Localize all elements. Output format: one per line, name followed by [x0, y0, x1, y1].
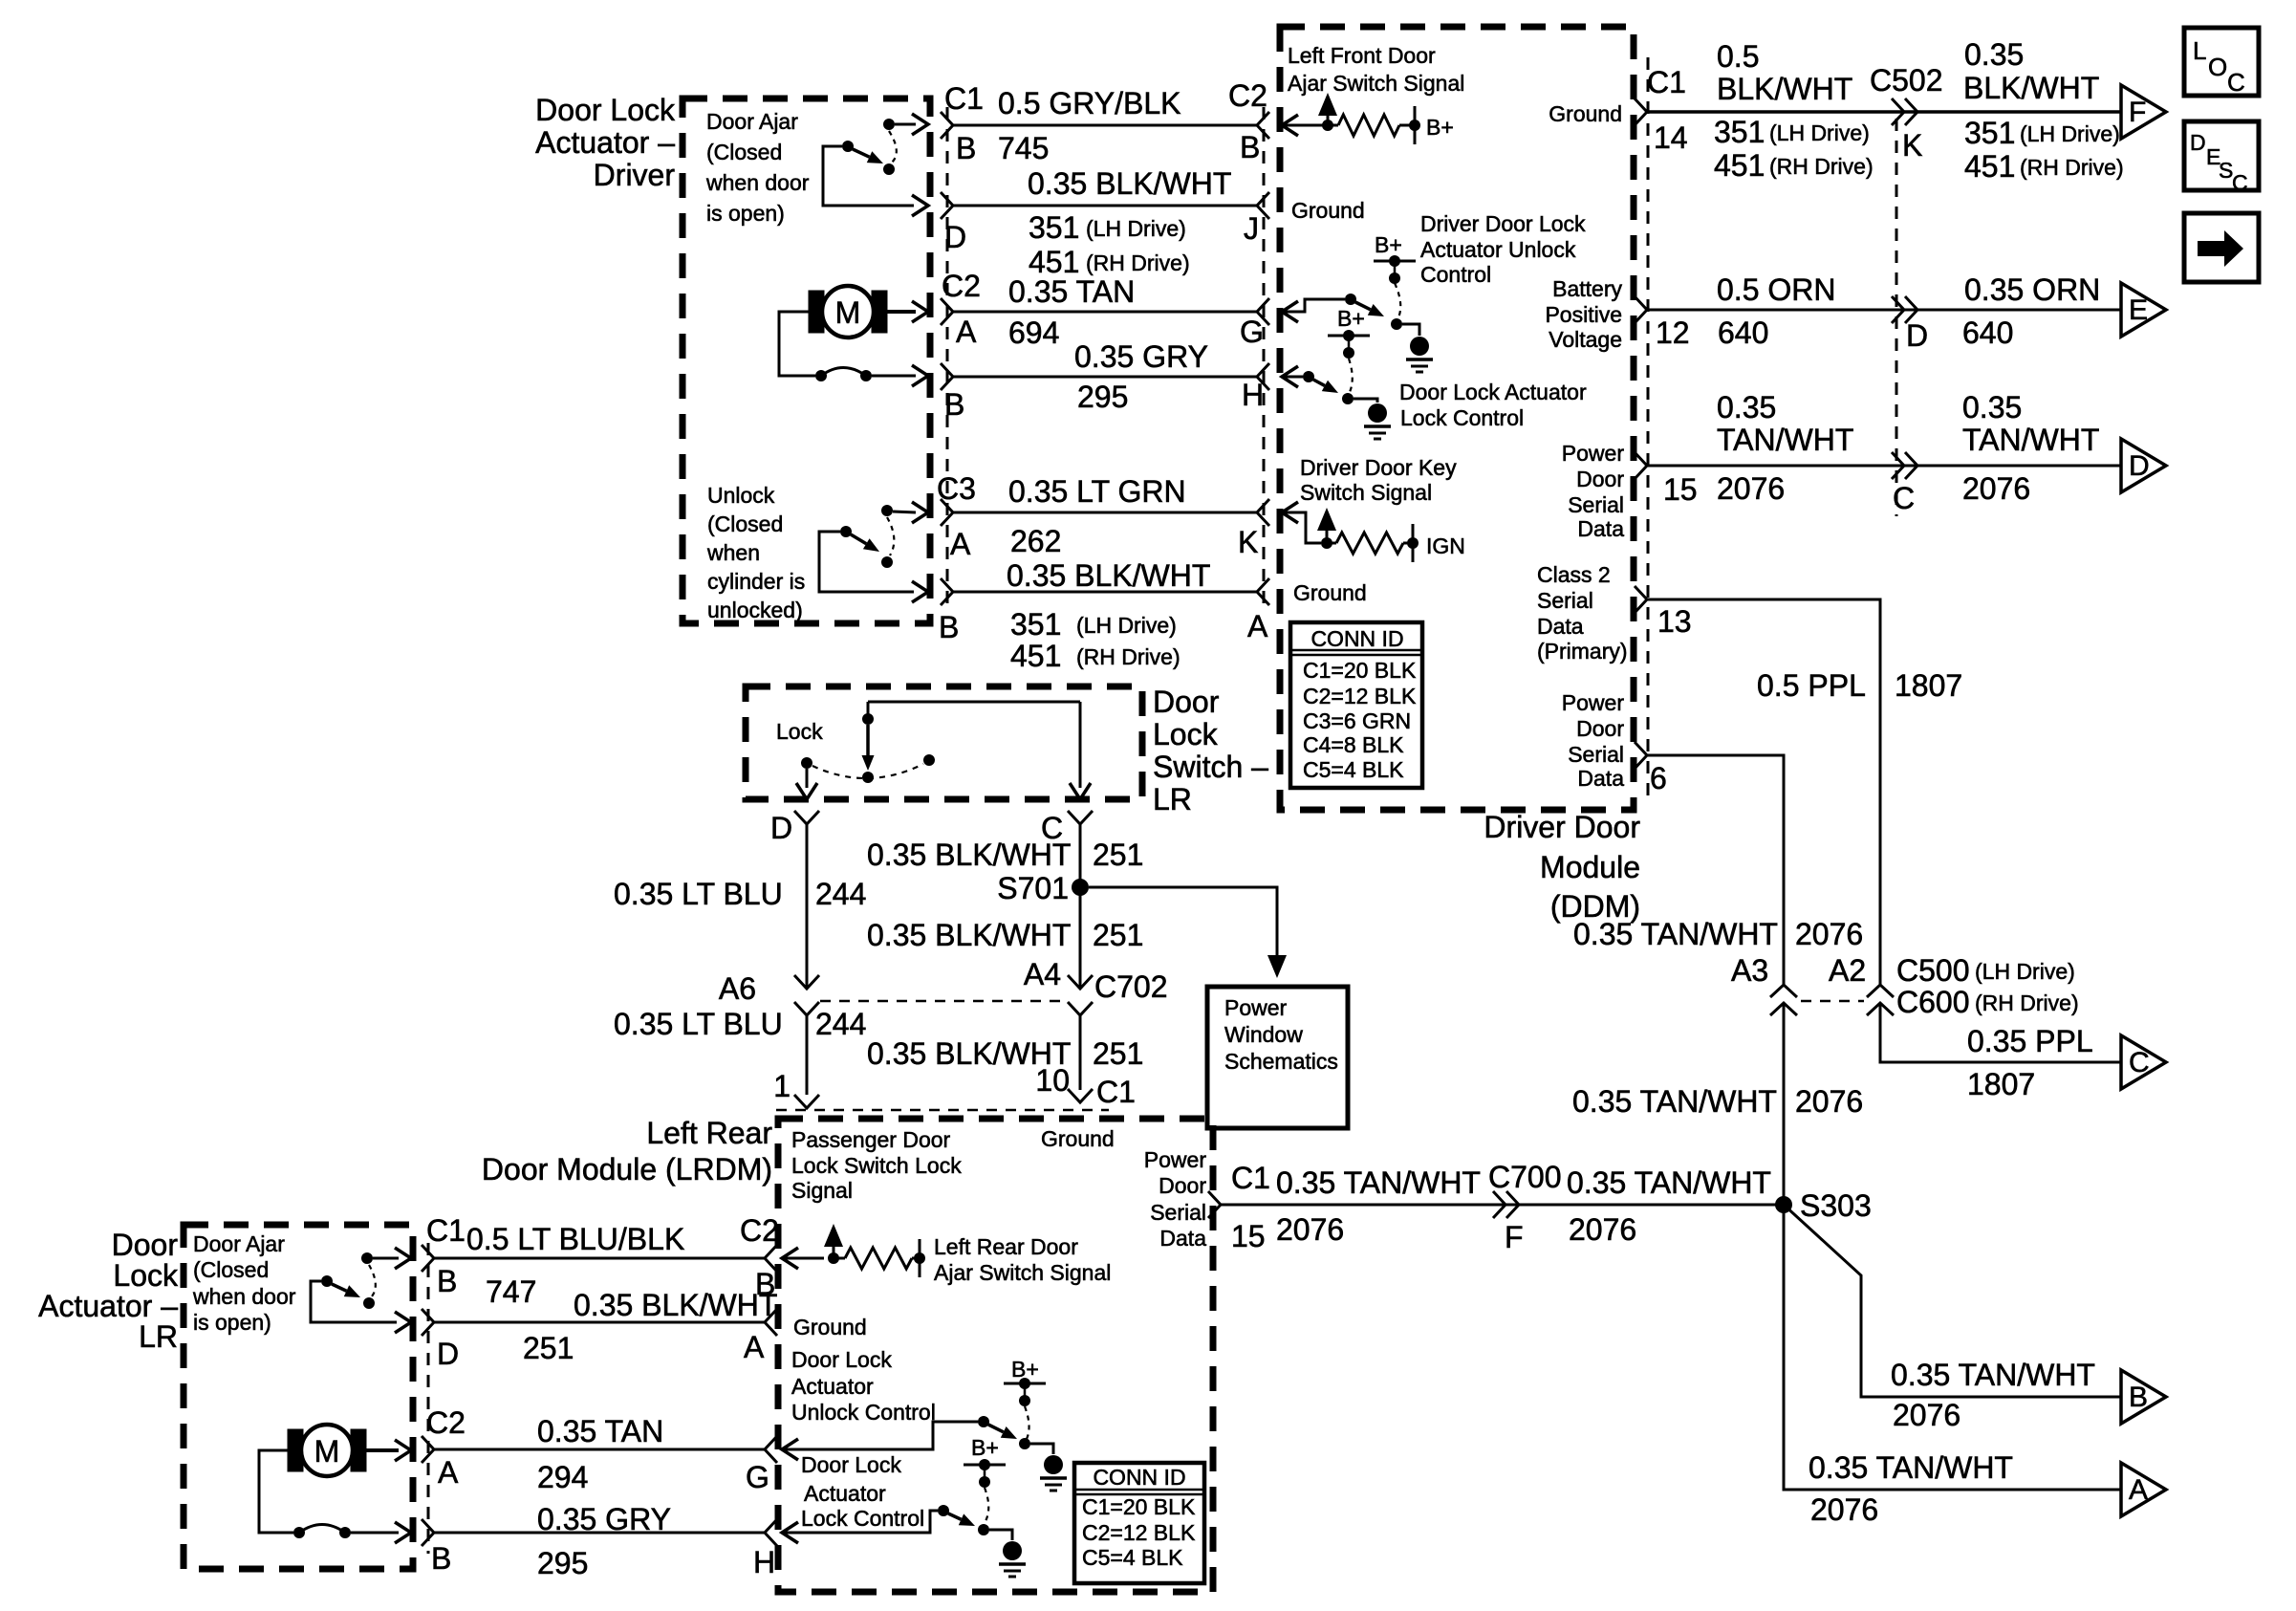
svg-text:C5=4 BLK: C5=4 BLK: [1082, 1545, 1183, 1570]
splice S303: [1775, 1196, 1792, 1213]
svg-text:15: 15: [1231, 1219, 1266, 1253]
svg-text:C3: C3: [937, 471, 976, 506]
svg-text:A6: A6: [719, 971, 756, 1006]
svg-text:0.5 ORN: 0.5 ORN: [1717, 272, 1835, 307]
svg-text:Actuator: Actuator: [804, 1481, 886, 1506]
svg-text:C1: C1: [426, 1213, 466, 1248]
svg-text:D: D: [770, 811, 792, 845]
svg-text:CONN ID: CONN ID: [1310, 626, 1403, 651]
connector line C2 (DDM left): [1263, 107, 1266, 604]
module box: Driver Door Module (DDM): [1280, 27, 1634, 810]
svg-text:M: M: [835, 295, 861, 330]
svg-text:351: 351: [1010, 607, 1061, 642]
wire 0.5 ORN 640 (battery, pin 12): [1635, 296, 1647, 323]
svg-text:Door Lock Actuator: Door Lock Actuator: [1399, 380, 1587, 404]
svg-text:Data: Data: [1577, 766, 1624, 791]
svg-text:Lock Control: Lock Control: [1400, 405, 1524, 430]
svg-text:351: 351: [1714, 115, 1765, 149]
svg-text:(LH Drive): (LH Drive): [2020, 121, 2120, 146]
svg-text:B: B: [939, 610, 959, 644]
svg-text:0.35 TAN/WHT: 0.35 TAN/WHT: [1809, 1450, 2013, 1485]
svg-text:Lock: Lock: [776, 719, 823, 744]
svg-text:BLK/WHT: BLK/WHT: [1963, 71, 2099, 105]
svg-text:C2: C2: [740, 1213, 779, 1248]
svg-text:F: F: [2129, 97, 2146, 128]
svg-text:C1=20 BLK: C1=20 BLK: [1303, 658, 1417, 683]
svg-text:Door Module (LRDM): Door Module (LRDM): [482, 1152, 772, 1186]
svg-text:747: 747: [486, 1274, 536, 1309]
svg-text:C2: C2: [426, 1405, 466, 1440]
svg-text:Serial: Serial: [1537, 588, 1593, 613]
svg-text:Control: Control: [1420, 262, 1491, 287]
svg-text:Driver Door Lock: Driver Door Lock: [1420, 211, 1586, 236]
svg-text:(RH Drive): (RH Drive): [1086, 250, 1190, 275]
svg-text:0.35 GRY: 0.35 GRY: [1074, 339, 1208, 374]
svg-text:unlocked): unlocked): [707, 598, 803, 622]
svg-text:Serial: Serial: [1568, 492, 1624, 517]
off-page arrow E: [2121, 283, 2166, 337]
svg-text:LR: LR: [139, 1319, 178, 1354]
svg-text:13: 13: [1657, 604, 1692, 639]
svg-text:251: 251: [1093, 838, 1143, 872]
svg-text:Left Rear: Left Rear: [646, 1116, 772, 1150]
svg-text:0.35 PPL: 0.35 PPL: [1967, 1024, 2093, 1058]
svg-text:295: 295: [1077, 380, 1128, 414]
svg-text:(Closed: (Closed: [706, 140, 782, 164]
svg-text:Lock Switch Lock: Lock Switch Lock: [791, 1153, 962, 1178]
svg-text:A: A: [2129, 1474, 2148, 1506]
pin D of door lock switch: [794, 811, 819, 824]
svg-text:451: 451: [1964, 149, 2015, 184]
svg-text:A3: A3: [1731, 953, 1768, 988]
motor lower contact pair (LR): [293, 1527, 305, 1538]
svg-text:Left Front Door: Left Front Door: [1288, 43, 1436, 68]
svg-text:Data: Data: [1159, 1226, 1206, 1251]
svg-text:0.35: 0.35: [1964, 37, 2024, 72]
svg-text:Ground: Ground: [1293, 580, 1367, 605]
svg-text:2076: 2076: [1717, 471, 1785, 506]
svg-text:C3=6 GRN: C3=6 GRN: [1303, 708, 1411, 733]
svg-text:B: B: [2129, 1382, 2148, 1413]
svg-text:C1: C1: [1647, 65, 1686, 99]
svg-text:244: 244: [815, 877, 866, 911]
ground (lock control): [1368, 403, 1387, 423]
svg-text:(RH Drive): (RH Drive): [1076, 644, 1180, 669]
off-page arrow F: [2121, 85, 2166, 139]
svg-text:15: 15: [1663, 472, 1698, 507]
wire 0.35 TAN/WHT 2076 (power door serial data, pin 6): [1635, 742, 1647, 769]
svg-text:(LH Drive): (LH Drive): [1076, 613, 1177, 638]
svg-text:Data: Data: [1577, 516, 1624, 541]
svg-text:C1=20 BLK: C1=20 BLK: [1082, 1494, 1196, 1519]
svg-text:Actuator –: Actuator –: [38, 1289, 178, 1323]
svg-text:F: F: [1505, 1220, 1524, 1254]
svg-text:0.35 LT BLU: 0.35 LT BLU: [614, 877, 783, 911]
svg-text:251: 251: [1093, 1036, 1143, 1071]
svg-text:(LH Drive): (LH Drive): [1086, 216, 1186, 241]
svg-text:D: D: [2129, 450, 2150, 482]
svg-text:Ground: Ground: [793, 1315, 867, 1339]
svg-text:Positive: Positive: [1545, 302, 1622, 327]
arrow legend box: [2184, 213, 2259, 282]
svg-text:Door Lock: Door Lock: [535, 93, 676, 127]
door ajar switch (LR): [361, 1252, 373, 1264]
svg-text:TAN/WHT: TAN/WHT: [1717, 423, 1853, 457]
module box: Door Lock Switch - LR: [746, 686, 1142, 799]
svg-text:0.5 GRY/BLK: 0.5 GRY/BLK: [998, 86, 1181, 120]
svg-text:Driver: Driver: [594, 158, 676, 192]
svg-text:Door: Door: [1159, 1173, 1206, 1198]
svg-text:0.35 TAN: 0.35 TAN: [537, 1414, 663, 1448]
svg-text:0.35 BLK/WHT: 0.35 BLK/WHT: [1007, 558, 1210, 593]
ground (unlock control, LRDM): [1044, 1455, 1063, 1474]
svg-text:0.5 PPL: 0.5 PPL: [1757, 668, 1866, 703]
svg-text:Door: Door: [1576, 467, 1624, 491]
wire 0.35 TAN 694 (driver actuator to DDM): [941, 298, 953, 325]
svg-text:0.35 BLK/WHT: 0.35 BLK/WHT: [867, 838, 1071, 872]
svg-text:Lock: Lock: [113, 1258, 179, 1293]
svg-text:2076: 2076: [1795, 1084, 1863, 1119]
svg-text:0.35 LT BLU: 0.35 LT BLU: [614, 1007, 783, 1041]
svg-text:Power: Power: [1144, 1147, 1207, 1172]
door ajar switch (driver): [883, 119, 895, 130]
svg-text:Lock: Lock: [1153, 717, 1219, 751]
left rear door ajar switch signal circuit (LRDM): [782, 1248, 798, 1269]
motor lower contact pair (driver): [815, 370, 827, 381]
svg-text:Driver Door Key: Driver Door Key: [1300, 455, 1457, 480]
svg-text:A: A: [1247, 609, 1268, 643]
svg-text:D: D: [1906, 318, 1928, 353]
power window schematics box: [1207, 987, 1348, 1128]
wire 0.35 GRY 295 (driver actuator to DDM): [941, 363, 953, 390]
svg-text:S701: S701: [997, 871, 1069, 905]
svg-text:351: 351: [1964, 116, 2015, 150]
svg-text:0.5: 0.5: [1717, 39, 1759, 74]
svg-text:Data: Data: [1537, 614, 1584, 639]
CONN ID table (DDM): [1290, 622, 1422, 788]
svg-text:1807: 1807: [1967, 1067, 2035, 1101]
svg-text:Ground: Ground: [1291, 198, 1365, 223]
svg-text:0.35 LT GRN: 0.35 LT GRN: [1008, 474, 1186, 509]
svg-text:BLK/WHT: BLK/WHT: [1717, 72, 1852, 106]
svg-text:B: B: [431, 1541, 451, 1576]
svg-text:(LH Drive): (LH Drive): [1769, 120, 1870, 145]
svg-text:B+: B+: [1337, 306, 1365, 331]
off-page arrow D: [2121, 439, 2166, 492]
connector line C1/C2 (LR actuator): [427, 1243, 430, 1554]
wire 0.35 PPL 1807 to arrow C: [1880, 1003, 2121, 1062]
svg-text:C700: C700: [1488, 1160, 1562, 1194]
svg-text:0.35 ORN: 0.35 ORN: [1964, 272, 2100, 307]
wire 0.35 GRY 295 (LR actuator to LRDM): [422, 1519, 434, 1546]
svg-text:Schematics: Schematics: [1224, 1049, 1338, 1074]
module box: Door Lock Actuator - Driver: [682, 98, 930, 623]
svg-text:Actuator Unlock: Actuator Unlock: [1420, 237, 1576, 262]
svg-text:is open): is open): [193, 1310, 271, 1335]
svg-text:B: B: [437, 1264, 457, 1298]
svg-text:when door: when door: [192, 1284, 296, 1309]
svg-text:Switch –: Switch –: [1153, 750, 1268, 784]
svg-text:Power: Power: [1562, 690, 1625, 715]
svg-text:IGN: IGN: [1426, 533, 1465, 558]
motor M (LR door lock actuator): [288, 1429, 303, 1471]
svg-text:2076: 2076: [1795, 917, 1863, 951]
wire 0.5 PPL 1807 (class 2 serial data, pin 13): [1635, 586, 1647, 613]
svg-text:C500: C500: [1896, 953, 1970, 988]
svg-text:0.5 LT BLU/BLK: 0.5 LT BLU/BLK: [466, 1222, 684, 1256]
wire 0.35 TAN/WHT 2076 (LRDM pin 15 to S303) with connector C700: [1208, 1191, 1221, 1218]
svg-text:0.35 TAN/WHT: 0.35 TAN/WHT: [1891, 1358, 2095, 1392]
wire 0.35 TAN 294 (LR actuator to LRDM): [422, 1436, 434, 1463]
connector C500/C600 (A3-A2): [1770, 985, 1797, 997]
svg-text:244: 244: [815, 1007, 866, 1041]
svg-text:Ajar Switch Signal: Ajar Switch Signal: [1288, 71, 1464, 96]
svg-text:E: E: [2129, 294, 2148, 326]
connector line C502: [1895, 119, 1898, 516]
svg-text:when: when: [706, 540, 760, 565]
svg-text:0.35 BLK/WHT: 0.35 BLK/WHT: [867, 918, 1071, 952]
svg-text:B: B: [956, 131, 976, 165]
svg-text:C1: C1: [1096, 1075, 1136, 1109]
svg-text:CONN ID: CONN ID: [1093, 1465, 1185, 1490]
svg-text:1807: 1807: [1895, 668, 1962, 703]
svg-text:351: 351: [1029, 210, 1079, 245]
svg-text:Signal: Signal: [791, 1178, 853, 1203]
svg-text:2076: 2076: [1569, 1212, 1636, 1247]
svg-text:B+: B+: [1375, 232, 1402, 257]
svg-text:Module: Module: [1540, 850, 1640, 884]
svg-text:C1: C1: [944, 81, 984, 116]
svg-text:0.35 TAN/WHT: 0.35 TAN/WHT: [1572, 1084, 1777, 1119]
LOC legend box: [2184, 28, 2259, 96]
pin C of door lock switch: [1068, 811, 1093, 824]
svg-text:0.35 BLK/WHT: 0.35 BLK/WHT: [1028, 166, 1231, 201]
svg-text:(RH Drive): (RH Drive): [1975, 991, 2079, 1015]
wire 0.35 LT GRN 262 (driver actuator to DDM): [941, 499, 953, 526]
svg-text:A: A: [744, 1330, 765, 1364]
svg-text:12: 12: [1656, 316, 1690, 350]
wire S701 to power window schematics: [1089, 887, 1277, 968]
svg-text:B: B: [944, 387, 964, 422]
svg-text:Actuator –: Actuator –: [535, 125, 675, 160]
svg-text:451: 451: [1010, 639, 1061, 673]
svg-text:A: A: [956, 315, 977, 349]
svg-text:Driver Door: Driver Door: [1484, 810, 1640, 844]
svg-text:Battery: Battery: [1552, 276, 1622, 301]
svg-text:A4: A4: [1024, 957, 1061, 991]
DESC legend box: [2184, 121, 2259, 190]
svg-text:G: G: [1240, 315, 1264, 349]
svg-text:M: M: [314, 1434, 340, 1469]
svg-text:C502: C502: [1870, 63, 1943, 98]
connector line C1 (DDM right): [1647, 57, 1650, 803]
ground (lock control, LRDM): [1003, 1541, 1022, 1560]
svg-text:D: D: [944, 220, 966, 254]
svg-text:B+: B+: [1426, 115, 1454, 140]
svg-text:(RH Drive): (RH Drive): [2020, 155, 2124, 180]
wire 0.5 LT BLU/BLK 747 (LR actuator to LRDM): [422, 1245, 434, 1272]
wire 0.35 BLK/WHT 351/451 (driver actuator to DDM): [941, 192, 953, 219]
svg-text:Passenger Door: Passenger Door: [791, 1127, 951, 1152]
svg-text:1: 1: [773, 1069, 791, 1103]
svg-text:0.35 TAN/WHT: 0.35 TAN/WHT: [1567, 1165, 1771, 1200]
svg-text:Actuator: Actuator: [791, 1374, 874, 1399]
svg-text:640: 640: [1718, 316, 1768, 350]
svg-text:451: 451: [1714, 148, 1765, 183]
svg-text:G: G: [746, 1460, 769, 1494]
svg-text:C1: C1: [1231, 1161, 1270, 1195]
svg-text:10: 10: [1035, 1063, 1070, 1098]
svg-text:Unlock Control: Unlock Control: [791, 1400, 936, 1425]
motor M (driver door lock actuator): [809, 291, 824, 333]
svg-text:640: 640: [1962, 316, 2013, 350]
svg-text:LR: LR: [1153, 782, 1192, 816]
svg-text:Power: Power: [1562, 441, 1625, 466]
svg-text:L: L: [2193, 36, 2206, 65]
svg-text:K: K: [1238, 525, 1258, 559]
svg-text:262: 262: [1010, 524, 1061, 558]
svg-text:Unlock: Unlock: [707, 483, 775, 508]
svg-text:C2: C2: [942, 269, 981, 303]
svg-text:Class 2: Class 2: [1537, 562, 1611, 587]
svg-text:2076: 2076: [1893, 1398, 1960, 1432]
svg-text:Door Lock: Door Lock: [801, 1452, 901, 1477]
wire 0.35 TAN/WHT 2076 to arrow A: [1784, 1205, 2121, 1490]
svg-text:C2=12 BLK: C2=12 BLK: [1303, 684, 1417, 708]
svg-text:Door: Door: [112, 1228, 179, 1262]
svg-text:Serial: Serial: [1568, 742, 1624, 767]
svg-text:Door Ajar: Door Ajar: [706, 109, 798, 134]
module box: Door Lock Actuator - LR: [184, 1225, 413, 1569]
CONN ID table (LRDM): [1074, 1463, 1204, 1583]
svg-text:0.35 TAN/WHT: 0.35 TAN/WHT: [1573, 917, 1778, 951]
svg-text:251: 251: [523, 1331, 574, 1365]
svg-text:0.35 BLK/WHT: 0.35 BLK/WHT: [574, 1288, 777, 1322]
svg-text:Lock Control: Lock Control: [801, 1506, 924, 1531]
svg-text:C: C: [2227, 68, 2245, 97]
svg-text:is open): is open): [706, 201, 785, 226]
svg-text:0.35 TAN/WHT: 0.35 TAN/WHT: [1276, 1165, 1481, 1200]
unlock switch (driver): [881, 505, 893, 516]
svg-text:Door: Door: [1153, 685, 1220, 719]
svg-text:Voltage: Voltage: [1549, 327, 1622, 352]
svg-text:C: C: [2129, 1047, 2150, 1078]
svg-text:H: H: [1242, 378, 1264, 412]
svg-text:Ground: Ground: [1041, 1126, 1115, 1151]
wire 0.5 GRY/BLK 745 (driver actuator to DDM): [941, 112, 953, 139]
svg-text:2076: 2076: [1810, 1492, 1878, 1527]
svg-text:C600: C600: [1896, 985, 1970, 1019]
svg-text:K: K: [1902, 128, 1922, 163]
svg-text:A2: A2: [1829, 953, 1866, 988]
off-page arrow B: [2121, 1370, 2166, 1424]
svg-text:(LH Drive): (LH Drive): [1975, 959, 2075, 984]
connector line C1/C2/C3 (driver actuator): [946, 107, 949, 604]
svg-text:14: 14: [1654, 120, 1688, 155]
svg-text:H: H: [753, 1545, 775, 1579]
svg-text:D: D: [437, 1337, 459, 1371]
svg-text:294: 294: [537, 1460, 588, 1494]
svg-text:0.35 GRY: 0.35 GRY: [537, 1502, 671, 1536]
svg-text:(Closed: (Closed: [707, 512, 783, 536]
svg-text:745: 745: [998, 131, 1049, 165]
svg-text:TAN/WHT: TAN/WHT: [1962, 423, 2099, 457]
svg-text:2076: 2076: [1962, 471, 2030, 506]
wire 0.35 TAN/WHT 2076 (A3 to S303): [1783, 1003, 1786, 1205]
svg-text:C: C: [1893, 481, 1915, 515]
svg-text:C2: C2: [1228, 78, 1267, 113]
svg-text:Ground: Ground: [1549, 101, 1622, 126]
svg-text:B+: B+: [971, 1435, 999, 1460]
svg-text:0.35 TAN: 0.35 TAN: [1008, 274, 1135, 309]
module box: Left Rear Door Module (LRDM): [778, 1119, 1213, 1592]
svg-text:Window: Window: [1224, 1022, 1303, 1047]
off-page arrow A: [2121, 1463, 2166, 1516]
svg-text:Door Lock: Door Lock: [791, 1347, 892, 1372]
wire 0.35 TAN/WHT 2076 (power door serial data, pin 15): [1635, 452, 1647, 479]
svg-text:A: A: [950, 527, 971, 561]
wire 0.35 BLK/WHT 351/451 (lower) (driver actuator to DDM): [941, 578, 953, 605]
svg-text:C4=8 BLK: C4=8 BLK: [1303, 732, 1404, 757]
svg-text:0.35: 0.35: [1717, 390, 1776, 425]
svg-text:(Closed: (Closed: [193, 1257, 269, 1282]
lock switch (LR) internals: [868, 701, 1080, 704]
wire 0.5 BLK/WHT 351/451 (ground, pin 14) with connector C502: [1635, 98, 1647, 125]
svg-text:when door: when door: [705, 170, 810, 195]
svg-text:295: 295: [537, 1546, 588, 1580]
svg-text:S303: S303: [1800, 1188, 1872, 1223]
svg-text:C: C: [2232, 170, 2248, 195]
svg-text:J: J: [1244, 211, 1259, 246]
svg-text:C702: C702: [1094, 969, 1168, 1004]
svg-text:(Primary): (Primary): [1537, 639, 1628, 664]
svg-text:C2=12 BLK: C2=12 BLK: [1082, 1520, 1196, 1545]
svg-text:A: A: [438, 1455, 459, 1490]
svg-text:B: B: [1240, 130, 1260, 164]
svg-text:0.35: 0.35: [1962, 390, 2022, 425]
svg-text:O: O: [2208, 53, 2227, 81]
svg-text:D: D: [2190, 130, 2206, 155]
splice S701: [1072, 879, 1089, 896]
svg-text:Switch Signal: Switch Signal: [1300, 480, 1432, 505]
wire 0.35 BLK/WHT 251 (LR actuator to LRDM): [422, 1309, 434, 1336]
svg-text:251: 251: [1093, 918, 1143, 952]
svg-text:(RH Drive): (RH Drive): [1769, 154, 1874, 179]
svg-text:Power: Power: [1224, 995, 1288, 1020]
svg-text:C5=4 BLK: C5=4 BLK: [1303, 757, 1404, 782]
svg-text:Door: Door: [1576, 716, 1624, 741]
svg-text:Ajar Switch Signal: Ajar Switch Signal: [934, 1260, 1111, 1285]
svg-text:694: 694: [1008, 316, 1059, 350]
svg-text:Left Rear Door: Left Rear Door: [934, 1234, 1078, 1259]
off-page arrow C: [2121, 1035, 2166, 1089]
svg-text:6: 6: [1650, 761, 1667, 795]
wire 0.35 TAN/WHT 2076 to arrow B: [1784, 1205, 2121, 1397]
svg-text:Serial: Serial: [1150, 1200, 1206, 1225]
svg-text:2076: 2076: [1276, 1212, 1344, 1247]
svg-text:Door Ajar: Door Ajar: [193, 1231, 285, 1256]
ground (unlock control): [1410, 337, 1429, 356]
svg-text:cylinder is: cylinder is: [707, 569, 805, 594]
